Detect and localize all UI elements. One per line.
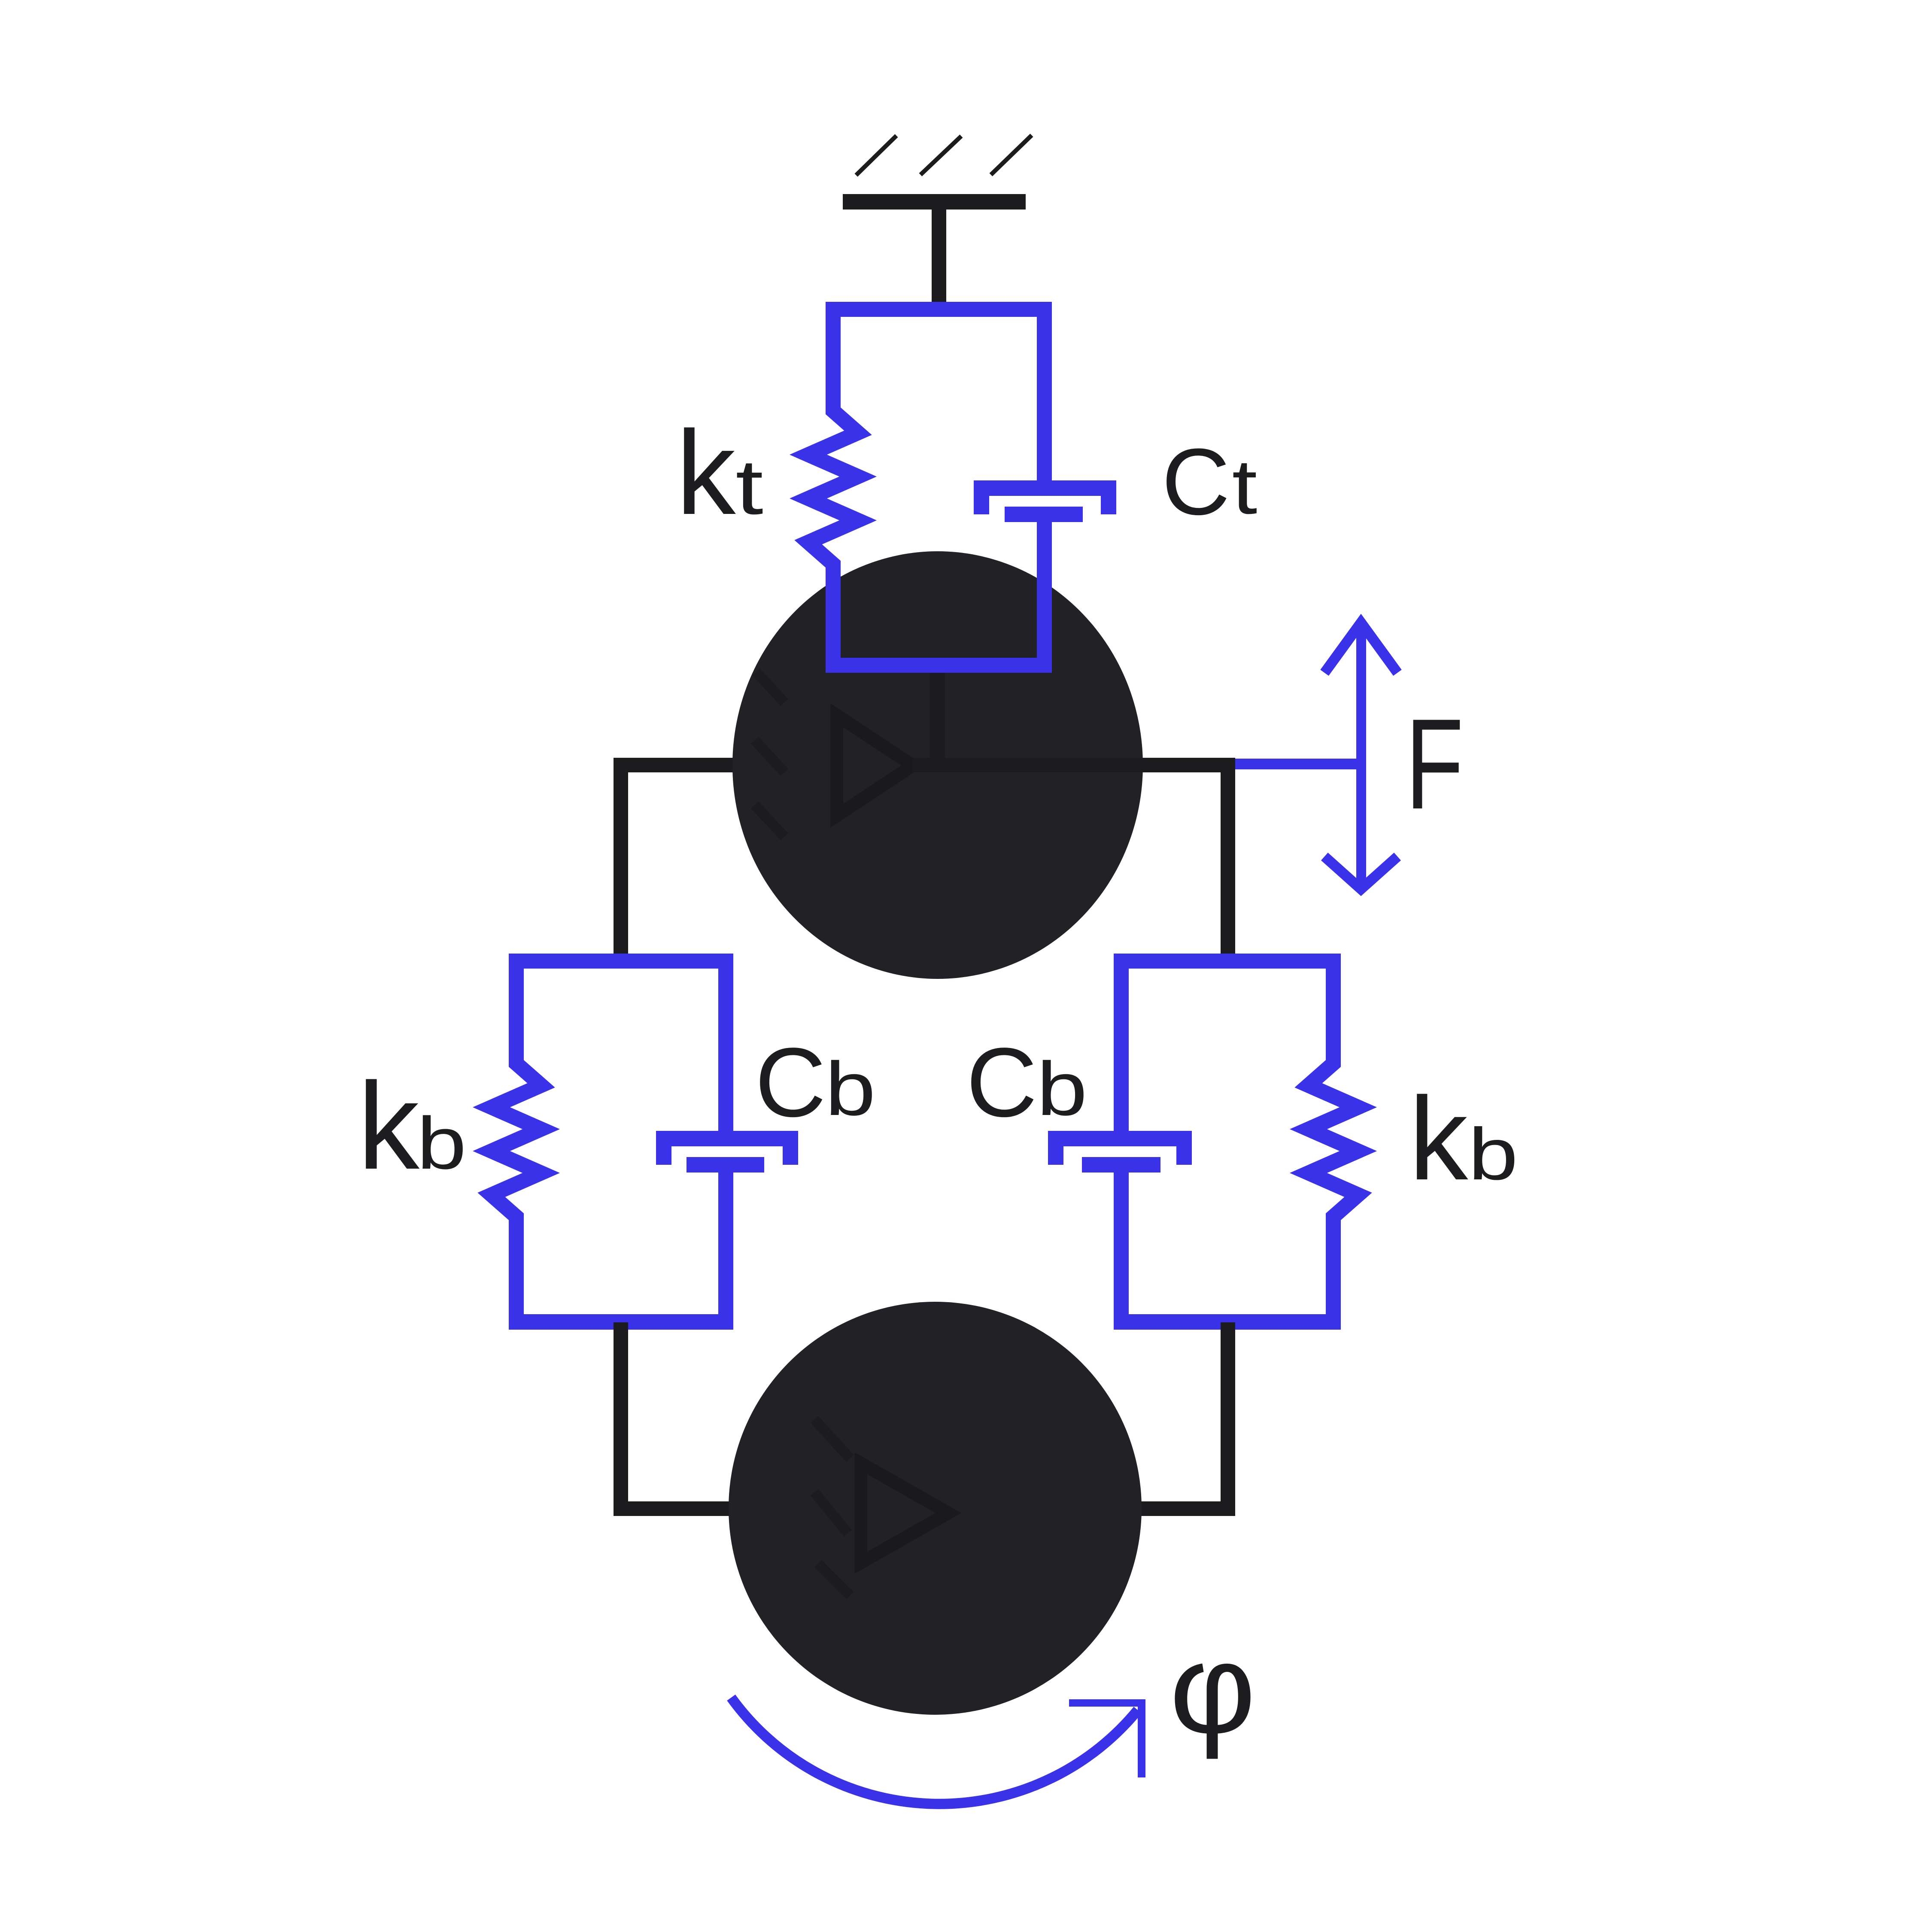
mass M2 inner triangle: [861, 1463, 948, 1563]
phi rotation arc: [731, 1698, 1138, 1804]
damper ct cylinder bar: [974, 480, 1116, 496]
wire M2 right vertical: [1221, 1322, 1235, 1516]
spring kb (right): [1309, 961, 1358, 1322]
damper cb (left) upper rod: [718, 961, 733, 1131]
mass M1 inner hatch 2: [755, 740, 784, 772]
svg-text:k: k: [1409, 1073, 1470, 1205]
damper cb (right) lower rod: [1114, 1173, 1129, 1321]
spring kb (left): [492, 961, 541, 1322]
right combo frame top bar: [1114, 954, 1341, 969]
ground hatch line 1: [856, 136, 896, 175]
F arrow connector from wire: [1235, 759, 1361, 769]
rod from top combo into mass M1: [930, 665, 945, 765]
mass M2 inner hatch 2: [814, 1492, 848, 1533]
svg-text:t: t: [735, 444, 763, 531]
damper cb (right) piston plate: [1082, 1157, 1160, 1173]
top combo frame top bar: [826, 302, 1052, 317]
ground stem wire: [932, 210, 946, 308]
damper cb (right) upper rod: [1114, 961, 1129, 1131]
damper cb (left) piston plate: [687, 1157, 764, 1173]
mass M1 inner triangle: [837, 715, 913, 816]
mass M1 inner hatch 3: [755, 805, 784, 837]
svg-text:k: k: [676, 406, 738, 539]
wire M1 left horizontal: [614, 758, 736, 772]
wire M2 left vertical: [614, 1322, 628, 1516]
wire M2 right horizontal: [1138, 1501, 1235, 1516]
damper cb (left) cylinder right wall: [783, 1146, 798, 1165]
left combo frame bottom bar: [509, 1314, 733, 1330]
ground hatch line 3: [991, 135, 1032, 175]
ground bar: [843, 194, 1026, 210]
svg-text:b: b: [825, 1047, 876, 1131]
F arrow bottom head: [1324, 857, 1397, 889]
damper ct cylinder left wall: [974, 496, 989, 514]
svg-text:b: b: [1037, 1047, 1088, 1131]
phi arrow barb vertical: [1138, 1699, 1145, 1777]
damper ct upper rod: [1037, 309, 1052, 480]
damper cb (right) cylinder left wall: [1048, 1146, 1063, 1165]
svg-text:b: b: [417, 1102, 467, 1185]
svg-text:C: C: [755, 1027, 826, 1137]
top combo frame bottom bar: [826, 658, 1052, 673]
wire M1 right horizontal: [913, 758, 1235, 772]
damper cb (right) cylinder right wall: [1176, 1146, 1192, 1165]
right combo frame bottom bar: [1114, 1314, 1341, 1330]
damper ct piston plate: [1005, 507, 1083, 522]
svg-text:F: F: [1405, 692, 1464, 835]
svg-text:b: b: [1468, 1113, 1518, 1195]
damper ct lower rod: [1037, 522, 1052, 665]
damper ct cylinder right wall: [1101, 496, 1116, 514]
mass M1 inner hatch 1: [756, 672, 784, 702]
mass M1 (upper disc): [732, 551, 1143, 979]
svg-text:C: C: [966, 1027, 1037, 1137]
phi arrow barb horizontal: [1069, 1699, 1145, 1707]
spring kt: [808, 309, 858, 665]
mass M2 inner hatch 3: [818, 1564, 850, 1595]
F arrow shaft: [1356, 625, 1366, 887]
svg-text:k: k: [358, 1057, 422, 1195]
damper cb (left) cylinder bar: [656, 1131, 798, 1146]
wire M1 left vertical: [614, 758, 628, 962]
svg-text:t: t: [1232, 443, 1258, 530]
left combo frame top bar: [509, 954, 733, 969]
wire M2 left horizontal: [614, 1501, 734, 1516]
mass M2 (lower disc): [729, 1302, 1142, 1715]
damper cb (left) cylinder left wall: [656, 1146, 671, 1165]
F arrow top head: [1324, 623, 1397, 673]
mass M2 inner hatch 1: [814, 1419, 850, 1458]
damper cb (left) lower rod: [718, 1173, 733, 1321]
damper cb (right) cylinder bar: [1048, 1131, 1192, 1146]
ground hatch line 2: [920, 136, 961, 175]
svg-text:C: C: [1162, 429, 1230, 535]
svg-text:φ: φ: [1169, 1617, 1256, 1760]
wire M1 right vertical: [1221, 758, 1235, 962]
